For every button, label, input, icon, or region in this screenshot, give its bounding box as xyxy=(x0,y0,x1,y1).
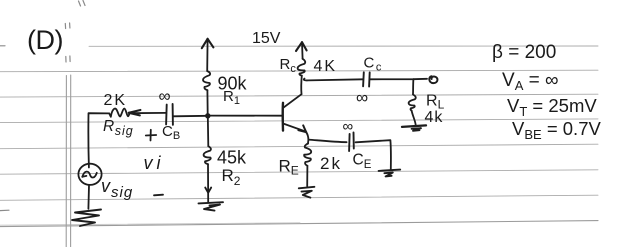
svg-text:β = 200: β = 200 xyxy=(492,42,556,63)
wire base node to transistor xyxy=(208,115,282,117)
resistor Rsig squiggle xyxy=(109,109,129,117)
svg-text:VA = ∞: VA = ∞ xyxy=(502,70,559,93)
source circle vsig xyxy=(78,164,101,185)
wire Cc to output terminal xyxy=(370,78,427,81)
svg-text:Rc: Rc xyxy=(280,56,297,75)
wire emitter junction down to RE xyxy=(307,140,309,144)
ground scribble below source xyxy=(72,210,101,227)
label minus xyxy=(154,194,163,197)
capacitor Cc plates xyxy=(363,72,370,86)
svg-text:4k: 4k xyxy=(425,109,444,126)
svg-text:∞: ∞ xyxy=(159,87,171,106)
node base junction xyxy=(206,114,210,118)
svg-text:vsig: vsig xyxy=(101,176,133,201)
wire emitter junction to CE left plate xyxy=(308,140,346,143)
wire junction down to RL xyxy=(412,79,414,94)
wire emitter to junction xyxy=(306,132,308,139)
wire RL to ground xyxy=(412,111,416,126)
svg-text:VBE = 0.7V: VBE = 0.7V xyxy=(512,118,601,142)
wire source to Rsig corner xyxy=(88,113,109,167)
svg-text:2K: 2K xyxy=(104,92,128,109)
output terminal loop xyxy=(429,76,437,83)
wire R1 to base node xyxy=(206,90,208,115)
svg-text:VT = 25mV: VT = 25mV xyxy=(507,95,597,119)
svg-text:Cc: Cc xyxy=(364,55,383,74)
svg-text:vi: vi xyxy=(144,153,165,173)
resistor Rc squiggle xyxy=(298,59,306,76)
wire source to ground xyxy=(87,185,90,209)
svg-text:(D): (D) xyxy=(27,25,63,55)
ground below RL xyxy=(402,125,426,130)
wire CB to base node xyxy=(173,115,208,118)
resistor RL squiggle xyxy=(409,95,416,111)
svg-text:15V: 15V xyxy=(252,30,281,47)
ground below R2 xyxy=(199,202,224,210)
label plus xyxy=(146,130,156,141)
wire CE right plate to corner and down xyxy=(356,140,391,169)
ground below CE xyxy=(379,170,401,177)
wire base node to R2 xyxy=(207,116,210,147)
ground below RE xyxy=(299,187,315,198)
svg-text:∞: ∞ xyxy=(343,118,354,135)
wire RE to ground xyxy=(306,166,308,187)
svg-text:4K: 4K xyxy=(314,58,338,75)
wire Rc to VCC arrow xyxy=(296,42,307,59)
svg-text:RE: RE xyxy=(279,157,299,178)
svg-text:2k: 2k xyxy=(320,154,342,173)
resistor RE squiggle xyxy=(304,144,311,166)
transistor Q1 xyxy=(283,94,307,132)
svg-text:45k: 45k xyxy=(217,148,247,168)
svg-text:∞: ∞ xyxy=(356,88,368,107)
svg-text:R2: R2 xyxy=(222,166,241,188)
resistor R1 squiggle xyxy=(203,71,210,90)
wire VCC arrow above R1 xyxy=(202,39,214,71)
capacitor CB plates xyxy=(166,104,173,125)
wire R2 to ground with arrowhead xyxy=(205,164,211,203)
svg-text:CE: CE xyxy=(353,152,372,172)
wire Rc junction to Cc xyxy=(304,79,363,81)
wire Rsig to CB with left arrowhead xyxy=(129,110,166,115)
resistor R2 squiggle xyxy=(204,146,211,164)
wire collector to Rc xyxy=(300,76,303,95)
capacitor CE plates xyxy=(349,133,354,152)
svg-text:Rsig: Rsig xyxy=(103,118,134,138)
svg-text:CB: CB xyxy=(162,123,180,142)
